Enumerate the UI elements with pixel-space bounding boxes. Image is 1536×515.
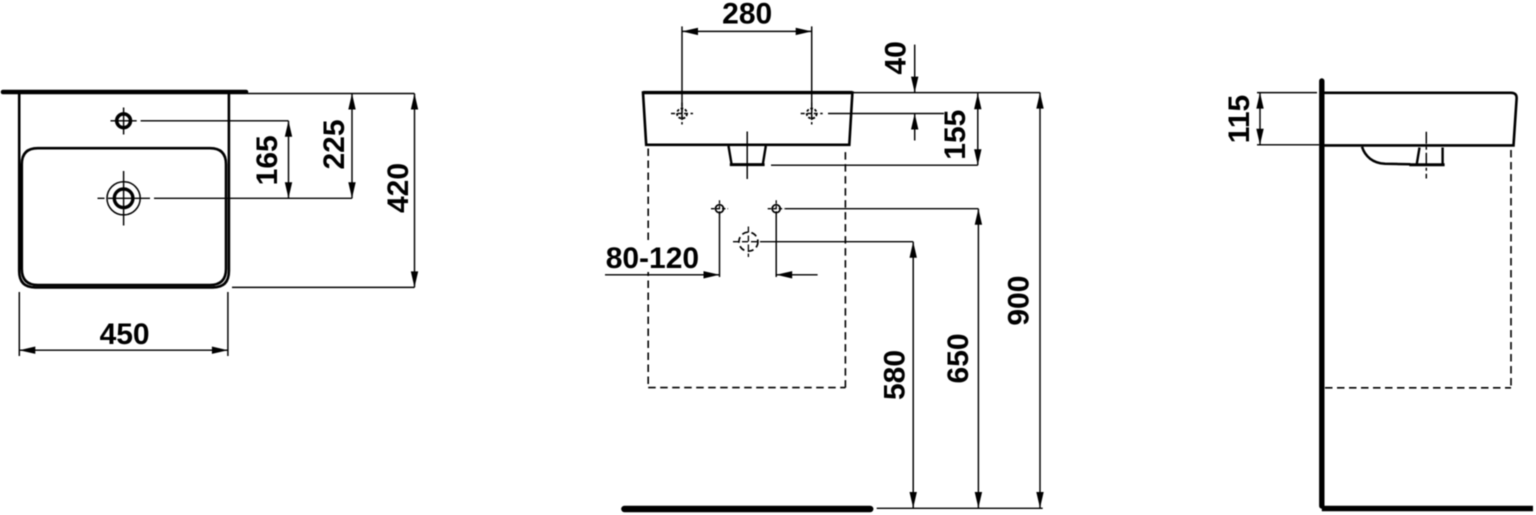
arrow 165 bottom: [285, 182, 292, 198]
basin front top edge (wall): [643, 91, 852, 94]
arrow 450 right: [212, 347, 228, 354]
basin inner bowl: [22, 148, 226, 285]
siphon hole cross: [733, 227, 764, 258]
dim 155 line: [977, 93, 979, 165]
dim 450 line: [19, 349, 228, 351]
dim 280 extension right: [811, 26, 813, 120]
supply hole right cross: [768, 200, 785, 217]
basin front outline: [643, 93, 852, 145]
side trap bottom: [1409, 163, 1444, 166]
dim 900 line: [1039, 93, 1041, 508]
arrow 420 top: [411, 94, 418, 110]
wall line (thick): [3, 90, 246, 95]
mounting hole left circle: [677, 109, 687, 119]
side trap centerline: [1425, 132, 1427, 179]
bottom edge extension line: [232, 286, 415, 288]
supply line extension to 650: [785, 208, 978, 210]
dim 280 extension left: [681, 26, 683, 120]
dim 580 line: [912, 242, 914, 508]
dim 450 extension right: [227, 292, 229, 356]
dim 80-120 right vertical: [775, 212, 777, 277]
arrow 280 left: [682, 28, 698, 35]
dim 225 line: [351, 94, 353, 199]
svg-text:580: 580: [878, 350, 911, 400]
trap bottom extension line: [771, 164, 978, 166]
dashed outline bottom: [648, 387, 845, 389]
mounting hole right circle: [807, 109, 817, 119]
arrow 280 right: [796, 28, 812, 35]
top edge extension line: [247, 93, 415, 95]
faucet hole centerline horizontal: [111, 120, 289, 122]
side trap right side: [1441, 148, 1443, 165]
drain outer circle: [107, 182, 140, 215]
svg-text:650: 650: [942, 333, 975, 383]
dim 80-120 right shaft: [776, 274, 817, 276]
basin outer outline: [19, 93, 229, 287]
floor line thick: [624, 506, 870, 513]
label 80-120 background mask: [603, 241, 702, 272]
svg-text:115: 115: [1223, 95, 1256, 143]
siphon hole circle: [739, 232, 758, 251]
drain centerline horizontal: [98, 197, 353, 199]
arrow 580 top: [910, 242, 917, 258]
arrow 900 top: [1036, 93, 1043, 109]
top edge extension to 900: [852, 92, 1040, 94]
svg-text:225: 225: [318, 119, 351, 169]
dim 115 line: [1259, 93, 1261, 145]
dashed outline right: [844, 149, 846, 388]
arrow 580 bottom: [910, 492, 917, 508]
arrow 225 bottom: [348, 182, 355, 198]
dim 40 line lower: [914, 114, 916, 141]
arrow 155 bottom: [974, 149, 981, 165]
svg-text:165: 165: [251, 135, 284, 185]
supply hole left cross: [711, 200, 728, 217]
side trap left slant: [1417, 148, 1420, 164]
arrow 650 top: [975, 209, 982, 225]
svg-text:420: 420: [382, 163, 415, 213]
arrow 450 left: [19, 347, 35, 354]
arrow 40 bottom: [911, 114, 918, 130]
svg-text:40: 40: [879, 41, 912, 74]
arrow 115 bottom: [1256, 129, 1263, 145]
dim 420 line: [414, 94, 416, 288]
svg-text:900: 900: [1003, 276, 1036, 326]
dashed outline left: [647, 149, 649, 388]
arrow 420 bottom: [411, 271, 418, 287]
basin side outline: [1325, 93, 1517, 146]
arrow 155 top: [974, 93, 981, 109]
underside bowl curve: [1362, 147, 1411, 164]
svg-text:280: 280: [722, 0, 772, 31]
drain trap left side: [729, 146, 732, 164]
arrow 40 top: [911, 77, 918, 93]
arrow 165 top: [285, 121, 292, 137]
faucet hole centerline vertical: [123, 108, 125, 135]
mounting hole left cross: [671, 103, 693, 125]
mounting hole line extension right: [828, 113, 944, 115]
dim 115 ext top: [1257, 92, 1317, 94]
supply hole left: [716, 205, 724, 213]
drain trap right side: [763, 146, 766, 164]
side dashed outline bottom: [1325, 387, 1511, 389]
drain trap bottom: [730, 163, 765, 166]
dim 650 line: [977, 209, 979, 508]
floor extension thin: [877, 507, 1043, 509]
supply hole right: [772, 205, 780, 213]
arrow 80-120 left: [704, 271, 720, 278]
floor line thick right view: [1322, 506, 1533, 511]
arrow 80-120 right: [776, 271, 792, 278]
dim 80-120 left shaft: [605, 274, 720, 276]
faucet hole: [117, 114, 131, 128]
arrow 900 bottom: [1036, 492, 1043, 508]
side dashed outline right: [1510, 150, 1512, 388]
dim 450 extension left: [18, 292, 20, 356]
arrow 650 bottom: [975, 492, 982, 508]
dim 165 line: [288, 121, 290, 199]
dim 280 line: [682, 30, 812, 32]
drain inner circle: [114, 189, 133, 208]
dim 115 ext bottom: [1257, 144, 1319, 146]
mounting hole right cross: [801, 103, 823, 125]
svg-text:155: 155: [939, 110, 972, 160]
trap centerline: [746, 132, 748, 180]
arrow 115 top: [1256, 93, 1263, 109]
arrow 225 top: [348, 94, 355, 110]
dim 80-120 left vertical: [719, 212, 721, 277]
siphon line extension to 580: [764, 241, 913, 243]
svg-text:450: 450: [100, 318, 150, 351]
wall line vertical thick: [1319, 81, 1324, 506]
svg-text:80-120: 80-120: [606, 242, 699, 275]
dim 40 line upper: [914, 45, 916, 93]
drain centerline vertical: [123, 171, 125, 226]
